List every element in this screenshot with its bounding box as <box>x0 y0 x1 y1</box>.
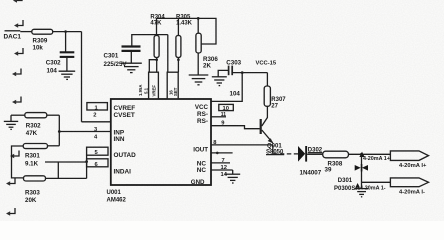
wire R302 to vertical <box>47 114 60 116</box>
ground under D301 <box>355 189 368 197</box>
return mark row7 <box>6 178 15 186</box>
wire D301 to I- node <box>361 171 363 183</box>
wire R304 down <box>156 58 158 99</box>
wire VCC rail <box>232 72 267 74</box>
ground left of R302 <box>4 115 18 129</box>
wire D301 to ground <box>361 182 363 188</box>
wire D302 to R308 <box>307 153 323 155</box>
wire R301 left down to R303 <box>12 146 24 178</box>
capacitor C302 <box>60 52 75 57</box>
op-amp U001 AM462 IC body <box>111 99 211 185</box>
wire corner to R301 right <box>48 145 60 147</box>
pin 7 stub <box>211 158 230 164</box>
return mark row6 <box>10 151 19 159</box>
wire R305 stem up <box>177 18 179 35</box>
wire C302 stem upper <box>65 32 67 52</box>
ground under C301 <box>121 63 142 72</box>
pin 11 stub <box>211 112 226 118</box>
capacitor C301 top wire <box>132 35 168 46</box>
junction C302 tap <box>64 30 67 33</box>
label S8050 <box>266 150 284 156</box>
resistor R302 <box>25 113 47 118</box>
label D302 <box>308 148 323 154</box>
wire riser to pin 5/6 boxes <box>86 155 88 178</box>
connector flag 4-20mA I+ <box>390 151 428 169</box>
junction pin3 tap <box>58 130 61 133</box>
wire pin 14 to ground <box>232 170 234 174</box>
label R304 value <box>150 14 165 26</box>
ground at pin 14 <box>225 174 240 183</box>
wire R307 to collector <box>262 106 268 126</box>
pin 13 stub <box>211 152 233 155</box>
wire VCC down to pin 10 <box>211 73 242 102</box>
resistor R301 <box>23 144 47 149</box>
ground under R306 <box>189 75 209 85</box>
wire R303 right to pin6 riser <box>46 177 87 179</box>
wire top rail VREF <box>157 18 217 44</box>
junction R305 bottom <box>177 58 180 61</box>
return mark row3 <box>14 48 23 56</box>
wire jog to pin box 13 <box>149 60 156 72</box>
wire short vertical x58 <box>57 162 59 178</box>
wire ground to R302 <box>11 114 25 116</box>
label R305 value <box>176 14 193 26</box>
transistor Q001 base bar <box>260 119 262 134</box>
pin 10 stub box <box>219 104 234 112</box>
label C302 value <box>46 59 61 74</box>
wire vertical R302/R301 <box>58 115 60 146</box>
pin box top 16 <box>167 72 178 99</box>
wire to pin 3 <box>59 131 111 133</box>
wire C301 to ground <box>130 52 132 63</box>
label R306 value <box>203 56 218 70</box>
ground left of C303 <box>212 77 227 86</box>
wire R304 stem up <box>156 18 158 35</box>
wire R309 to CVSET vertical <box>53 31 82 33</box>
label R301 value <box>25 153 40 168</box>
return mark row5 <box>12 97 21 105</box>
wire to D302 (dashed scan) <box>273 153 298 155</box>
label R309 value <box>33 37 48 51</box>
wire stub near 9.1K <box>45 161 87 163</box>
wire C301 net down to pin box 16 <box>167 35 169 73</box>
pin 12 stub <box>211 165 233 171</box>
wire R306 to ground <box>197 18 199 33</box>
wire C303 left to ground <box>218 70 228 76</box>
return mark row8 <box>6 208 15 216</box>
pin 5 stub box <box>87 147 108 156</box>
TVS diode D301 <box>355 164 368 171</box>
label C301 value <box>104 53 128 68</box>
label R302 value <box>26 123 41 137</box>
junction VCC tap <box>241 71 244 74</box>
resistor R307 <box>264 86 270 106</box>
node arrow 4-20mA 1+ <box>359 152 390 163</box>
label R303 value <box>25 190 40 205</box>
wire I- node to flag <box>362 181 391 183</box>
label R308 value <box>325 160 343 173</box>
capacitor C301 <box>122 47 141 51</box>
wire pin 8 IOUT <box>211 144 273 146</box>
resistor R308 <box>323 151 349 158</box>
junction R304 bottom <box>155 58 158 61</box>
wire pin 9 to base <box>211 126 260 129</box>
scan noise overlay <box>0 0 1 1</box>
wire to pin 2 <box>82 121 111 123</box>
return mark row4 <box>12 69 21 77</box>
pin box top 13 <box>149 72 159 99</box>
node DAC1 label <box>4 31 22 41</box>
ground under C302 <box>59 71 76 79</box>
wire CVSET net vertical <box>81 32 83 122</box>
return mark row2 <box>14 20 23 28</box>
resistor R305 <box>176 35 181 57</box>
wire C302 to ground <box>66 58 68 71</box>
connector flag 4-20mA I- <box>390 178 428 196</box>
resistor R303 <box>24 176 46 181</box>
node arrow 4-20mA 1- <box>355 183 386 192</box>
junction D301 tap <box>360 153 363 156</box>
label R307 value <box>271 97 286 109</box>
wire R305 down <box>177 58 179 73</box>
transistor Q001 emitter <box>262 130 273 143</box>
wire emitter drop <box>272 145 274 154</box>
resistor R304 <box>154 35 159 57</box>
junction pin6 <box>85 160 88 163</box>
wire R308 to flag I+ <box>349 153 391 155</box>
diode D302 <box>298 146 307 162</box>
return mark row1 (partial) <box>13 0 22 3</box>
resistor R309 <box>32 29 53 34</box>
pin 1 stub box <box>87 103 108 112</box>
wire to D301 <box>361 154 363 165</box>
wire VCC to R307 <box>266 73 268 86</box>
pin 6 stub box <box>87 159 108 168</box>
wire DAC1 to R309 <box>20 31 32 33</box>
resistor R306 <box>196 33 201 53</box>
capacitor C303 <box>229 66 233 76</box>
